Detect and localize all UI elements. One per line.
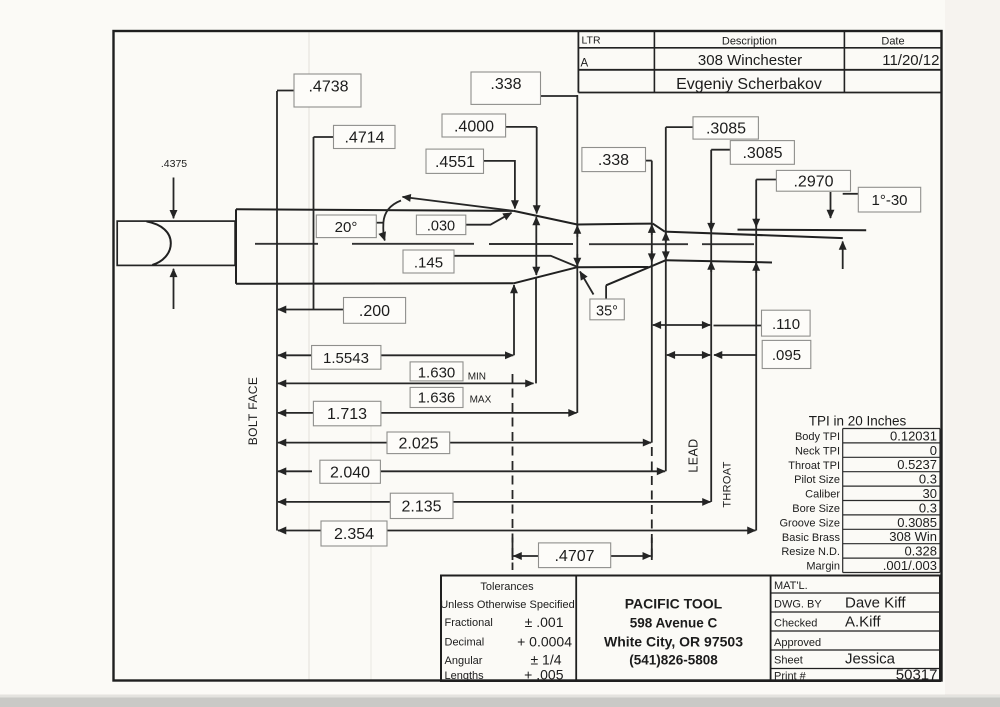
revision table top right (578, 32, 941, 93)
dim box .338 right (582, 148, 646, 172)
bolt face extension line x=277 (276, 91, 278, 531)
throat taper top (653, 224, 665, 232)
dim box .095 (762, 340, 811, 368)
drawing frame border (114, 31, 942, 681)
dim box .4000 (442, 114, 506, 137)
dim box .4738 (294, 74, 361, 107)
extension line x=651.8 (throat/2.025) (651, 161, 653, 443)
svg-text:0: 0 (930, 443, 937, 458)
pilot nose D-arc (147, 221, 171, 265)
chamber body outline (235, 209, 237, 283)
svg-text:Decimal: Decimal (445, 637, 485, 649)
svg-text:+ 0.0004: + 0.0004 (517, 634, 572, 650)
TPI table values (883, 428, 937, 573)
leader .338 top (541, 95, 578, 97)
svg-text:Approved: Approved (774, 637, 821, 649)
TPI table grid (843, 429, 940, 573)
TPI table labels (779, 431, 840, 573)
double arrow x=536.3 between shoulder lines (535, 217, 537, 275)
title block outline (441, 576, 940, 682)
svg-text:.3085: .3085 (706, 121, 746, 138)
dim box 1.713 (313, 401, 381, 426)
svg-text:PACIFIC TOOL: PACIFIC TOOL (625, 596, 723, 612)
extension line x=665.8 (2.040) (665, 127, 667, 471)
dim box .4551 (426, 149, 484, 173)
leader .4000 (506, 126, 537, 128)
dim 1.5543 line (278, 354, 312, 356)
svg-text:.338: .338 (490, 76, 521, 93)
svg-text:0.3: 0.3 (919, 472, 937, 487)
dim box 1.630 (410, 362, 463, 381)
svg-text:TPI in 20 Inches: TPI in 20 Inches (809, 414, 907, 429)
svg-text:Basic Brass: Basic Brass (782, 532, 841, 544)
dim 1.713 line (278, 412, 313, 414)
dim .095 arrows (667, 354, 688, 356)
svg-text:.4375: .4375 (161, 158, 187, 170)
shoulder top (514, 211, 578, 225)
faint fold line (308, 32, 310, 680)
svg-text:Description: Description (722, 36, 777, 48)
svg-text:598 Avenue C: 598 Avenue C (630, 616, 718, 631)
leader .338 right (646, 160, 652, 162)
svg-text:Groove Size: Groove Size (779, 517, 840, 529)
extension x=536.7 upper (.4000) with down arrow (536, 127, 538, 214)
svg-text:1.630: 1.630 (418, 364, 456, 381)
dim box 20 degrees (316, 215, 376, 238)
dashed extension x=512.5 (.4707 left) (512, 374, 514, 570)
dim 2.135 line (278, 501, 390, 503)
dim box .030 (416, 215, 465, 235)
svg-text:0.328: 0.328 (904, 544, 937, 559)
bore bottom line (666, 260, 772, 262)
svg-text:Sheet: Sheet (774, 655, 803, 667)
20 degree box connector (376, 222, 383, 224)
svg-text:.338: .338 (598, 152, 629, 169)
svg-text:11/20/12: 11/20/12 (882, 52, 939, 69)
svg-text:0.3085: 0.3085 (897, 515, 937, 530)
dim box 35 degrees (590, 299, 624, 320)
leader .030 (466, 213, 512, 225)
svg-text:Tolerances: Tolerances (480, 581, 534, 593)
svg-text:1.713: 1.713 (327, 406, 367, 423)
dim .4707 line (514, 555, 539, 557)
svg-text:Caliber: Caliber (805, 489, 840, 501)
svg-text:Resize N.D.: Resize N.D. (781, 546, 840, 558)
svg-text:Date: Date (881, 36, 904, 48)
arrows x=756.2 (755, 218, 757, 227)
svg-text:1.5543: 1.5543 (323, 350, 369, 367)
1-30 taper down arrow (830, 192, 832, 218)
neck diameter arrows x=577.3 (576, 226, 578, 238)
leader .3085 first (666, 126, 693, 128)
svg-text:LTR: LTR (582, 35, 601, 47)
dim box .110 (762, 310, 811, 336)
svg-text:50317: 50317 (896, 667, 938, 684)
svg-text:.4714: .4714 (344, 130, 384, 147)
svg-text:2.135: 2.135 (401, 499, 441, 516)
leader .2970 (756, 179, 776, 181)
svg-text:LEAD: LEAD (687, 438, 701, 472)
dim 1.630 line (278, 382, 534, 384)
pilot shank rectangle (117, 221, 235, 265)
leader 1-30 (843, 193, 859, 195)
dim box 2.354 (321, 521, 387, 546)
svg-text:.2970: .2970 (793, 174, 833, 191)
svg-text:2.354: 2.354 (334, 526, 374, 543)
svg-text:Body TPI: Body TPI (795, 431, 840, 443)
svg-text:White City, OR 97503: White City, OR 97503 (604, 634, 743, 650)
neck top (577, 223, 652, 226)
bore arrows x=665.8 (665, 232, 667, 242)
leade taper line (665, 232, 843, 239)
leader .3085 second (711, 149, 730, 151)
svg-text:± .001: ± .001 (525, 614, 564, 630)
dim box 1-30 (858, 187, 920, 212)
dim box .338 top (471, 72, 541, 104)
scanner edge gray band bottom (0, 697, 1000, 707)
svg-text:A: A (581, 58, 589, 70)
svg-text:.4000: .4000 (454, 119, 494, 136)
leader .4738 (277, 90, 294, 92)
dim 2.354 line (278, 530, 321, 532)
svg-text:Angular: Angular (445, 655, 483, 667)
svg-text:.001/.003: .001/.003 (883, 558, 937, 573)
svg-text:Checked: Checked (774, 618, 817, 630)
dim box 1.636 (410, 387, 463, 407)
svg-text:.030: .030 (427, 218, 455, 234)
extension x=536 lower (1.630) (535, 278, 537, 383)
svg-text:0.5237: 0.5237 (897, 457, 937, 472)
dashed extension x=651.8 (.4707 right) (651, 447, 653, 562)
svg-text:.200: .200 (359, 303, 390, 320)
dim box 2.040 (320, 460, 381, 483)
extension line x=756.2 (2.354) (755, 180, 757, 531)
svg-text:.4551: .4551 (435, 154, 475, 171)
svg-text:1.636: 1.636 (418, 390, 456, 407)
svg-text:BOLT FACE: BOLT FACE (246, 377, 260, 446)
dim .110 arrows (653, 324, 681, 326)
svg-text:THROAT: THROAT (722, 461, 734, 507)
dim box 2.135 (390, 493, 453, 518)
material block grid (771, 593, 940, 669)
svg-text:.3085: .3085 (742, 145, 782, 162)
.4707 reference ticks (512, 538, 514, 561)
dim 2.025 line (278, 442, 387, 444)
dim .200 line (278, 309, 343, 311)
svg-text:308 Win: 308 Win (889, 529, 937, 544)
dim box .3085 first (693, 117, 758, 139)
35 degree arrow leader (580, 272, 594, 295)
svg-text:.4707: .4707 (554, 548, 594, 565)
svg-text:Margin: Margin (806, 561, 840, 573)
svg-text:Bore Size: Bore Size (792, 503, 840, 515)
svg-text:Lengths: Lengths (445, 670, 485, 682)
svg-text:.110: .110 (772, 316, 800, 333)
svg-text:30: 30 (923, 486, 937, 501)
.4375 bottom arrow (173, 269, 175, 309)
dim box 2.025 (387, 432, 450, 454)
svg-text:20°: 20° (335, 219, 358, 236)
groove diameter line (738, 229, 867, 232)
shoulder 20-degree extension line (403, 197, 514, 211)
dim box .2970 (776, 170, 850, 191)
svg-text:2.040: 2.040 (330, 465, 370, 482)
20-degree arc (383, 201, 401, 241)
dim box .145 (403, 250, 454, 273)
svg-text:2.025: 2.025 (398, 436, 438, 453)
svg-text:.145: .145 (414, 255, 443, 272)
svg-text:A.Kiff: A.Kiff (845, 614, 881, 631)
neck bottom (577, 266, 648, 268)
svg-text:308 Winchester: 308 Winchester (698, 52, 802, 69)
svg-text:0.12031: 0.12031 (890, 428, 937, 443)
svg-text:Fractional: Fractional (445, 617, 493, 629)
svg-text:Dave Kiff: Dave Kiff (845, 595, 906, 612)
extension line x=313.5 (.200/.4714) (313, 137, 315, 310)
svg-text:.095: .095 (772, 347, 801, 364)
svg-text:35°: 35° (596, 303, 618, 319)
svg-text:0.3: 0.3 (919, 500, 937, 515)
dim box .200 (344, 298, 406, 324)
svg-text:MAT'L.: MAT'L. (774, 580, 808, 592)
dim box 1.5543 (312, 346, 381, 370)
dim box .4707 (539, 543, 611, 568)
svg-text:Throat TPI: Throat TPI (788, 460, 840, 472)
extension line x=711.2 (2.135) (710, 150, 712, 502)
dim box .3085 second (730, 141, 794, 165)
svg-text:(541)826-5808: (541)826-5808 (629, 653, 718, 668)
svg-text:MAX: MAX (470, 395, 492, 406)
shoulder bottom (514, 267, 578, 283)
leader .4551 (484, 161, 515, 209)
leader .4714 (314, 136, 334, 138)
35-degree flank line (606, 260, 666, 285)
svg-text:Print #: Print # (774, 671, 807, 683)
svg-text:1°-30: 1°-30 (871, 192, 907, 209)
svg-text:MIN: MIN (468, 372, 486, 383)
svg-text:.4738: .4738 (308, 79, 348, 96)
centerline (255, 243, 754, 245)
svg-text:Neck TPI: Neck TPI (795, 445, 840, 457)
35 degree vertical leader (605, 285, 607, 299)
svg-text:Jessica: Jessica (845, 651, 896, 668)
svg-text:Unless Otherwise Specified: Unless Otherwise Specified (440, 599, 575, 611)
svg-text:Evgeniy Scherbakov: Evgeniy Scherbakov (676, 76, 822, 93)
extension line x=577.3 (neck/1.713) (576, 95, 578, 413)
svg-text:+ .005: + .005 (524, 667, 564, 683)
throat arrows x=651.8 (651, 225, 653, 235)
dim 2.040 line (278, 470, 312, 472)
leader .145 (454, 256, 577, 267)
svg-text:DWG. BY: DWG. BY (774, 599, 822, 611)
.4375 top arrow (173, 178, 175, 219)
svg-text:Pilot Size: Pilot Size (794, 474, 840, 486)
svg-text:± 1/4: ± 1/4 (530, 652, 561, 668)
extension line x=514 (1.5543) with up arrow (513, 285, 515, 355)
arrows x=711.2 (710, 221, 712, 231)
leade end up arrow (842, 242, 844, 270)
dim box .4714 (334, 125, 396, 148)
scanner margin tint right (945, 0, 1000, 695)
